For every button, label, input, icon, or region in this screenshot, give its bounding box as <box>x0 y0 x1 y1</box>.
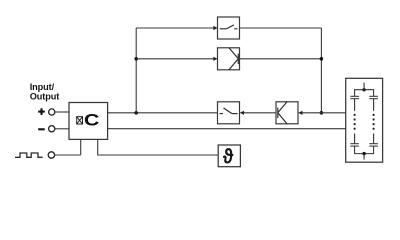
X1 top bar with stubs <box>355 90 374 97</box>
relay contact box S1 <box>218 17 240 39</box>
svg-text:C: C <box>84 111 100 129</box>
X1 right column upper segment <box>373 99 375 111</box>
X1 left column upper segment <box>354 99 356 111</box>
square-wave frequency signal symbol <box>15 153 43 157</box>
junction dot X1 bottom <box>362 152 365 155</box>
junction node C <box>320 57 324 61</box>
transistor output box Q1 <box>218 48 240 70</box>
arrowhead into Q1 <box>213 57 217 61</box>
switch input box S2 <box>218 102 240 124</box>
label Input/Output <box>30 82 60 101</box>
transistor symbol in Q1 <box>229 48 238 70</box>
wire Q2 to connector X1 <box>303 112 346 114</box>
X1 top pin stem <box>363 83 365 90</box>
wire second row to transistor Q1 <box>136 58 213 60</box>
wire top row to relay S1 <box>136 27 213 29</box>
X1 right column dots <box>373 114 375 130</box>
junction node B <box>134 57 138 61</box>
arrowhead into transistor Q2 <box>298 111 302 115</box>
terminal circle frequency input <box>48 152 54 158</box>
wire lower line U1 to connector X1 <box>108 128 346 130</box>
wire S1 to right bus <box>240 27 322 29</box>
wire vertical branch from node A up <box>135 28 137 113</box>
terminal circle + input <box>49 109 55 115</box>
X1 left column lower segment <box>354 133 356 143</box>
theta symbol in B1 <box>223 145 234 169</box>
arrowhead into switch S2 <box>240 111 244 115</box>
X1 bottom pin stem <box>363 154 365 160</box>
terminal circle - input <box>49 126 55 132</box>
arrowhead into S1 <box>213 26 217 30</box>
X1 bottom bar with stubs <box>355 146 374 154</box>
wire Q1 to right bus <box>238 58 321 60</box>
X1 left column dots <box>354 114 356 130</box>
wire U1 bottom stub right to temperature sensor <box>98 139 219 155</box>
wire U1 output to branch node A <box>108 112 218 114</box>
wire + terminal to controller U1 <box>55 111 69 113</box>
wire right bus vertical <box>320 28 322 113</box>
wire frequency terminal to node under U1 <box>55 154 81 156</box>
switch contact symbol in S2 <box>220 108 238 114</box>
bus connector X1 outer box <box>346 78 383 162</box>
switch contact symbol in S1 <box>220 25 238 29</box>
transistor input box Q2 <box>276 102 298 124</box>
X1 bottom contact left <box>350 144 359 146</box>
wire U1 bottom stub left (frequency) <box>80 139 82 155</box>
plus polarity mark <box>38 108 45 115</box>
svg-text:ϑ: ϑ <box>223 145 234 169</box>
X1 top contact left <box>350 96 359 98</box>
X1 right column lower segment <box>373 133 375 143</box>
svg-text:Output: Output <box>30 91 60 101</box>
microprocessor symbol inside U1 <box>77 117 83 124</box>
X1 top contact right <box>369 96 378 98</box>
wire - terminal to controller U1 <box>55 128 69 130</box>
label C of controller U1 <box>84 111 100 129</box>
transistor symbol in Q2 <box>278 102 287 124</box>
minus polarity mark <box>38 128 45 130</box>
junction dot X1 top <box>362 88 365 91</box>
wire S2 to Q2 <box>244 112 278 114</box>
temperature sensor box B1 <box>218 145 240 167</box>
X1 bottom contact right <box>369 144 378 146</box>
junction node D <box>320 111 324 115</box>
junction node A <box>134 111 138 115</box>
controller U1 box <box>69 103 108 140</box>
